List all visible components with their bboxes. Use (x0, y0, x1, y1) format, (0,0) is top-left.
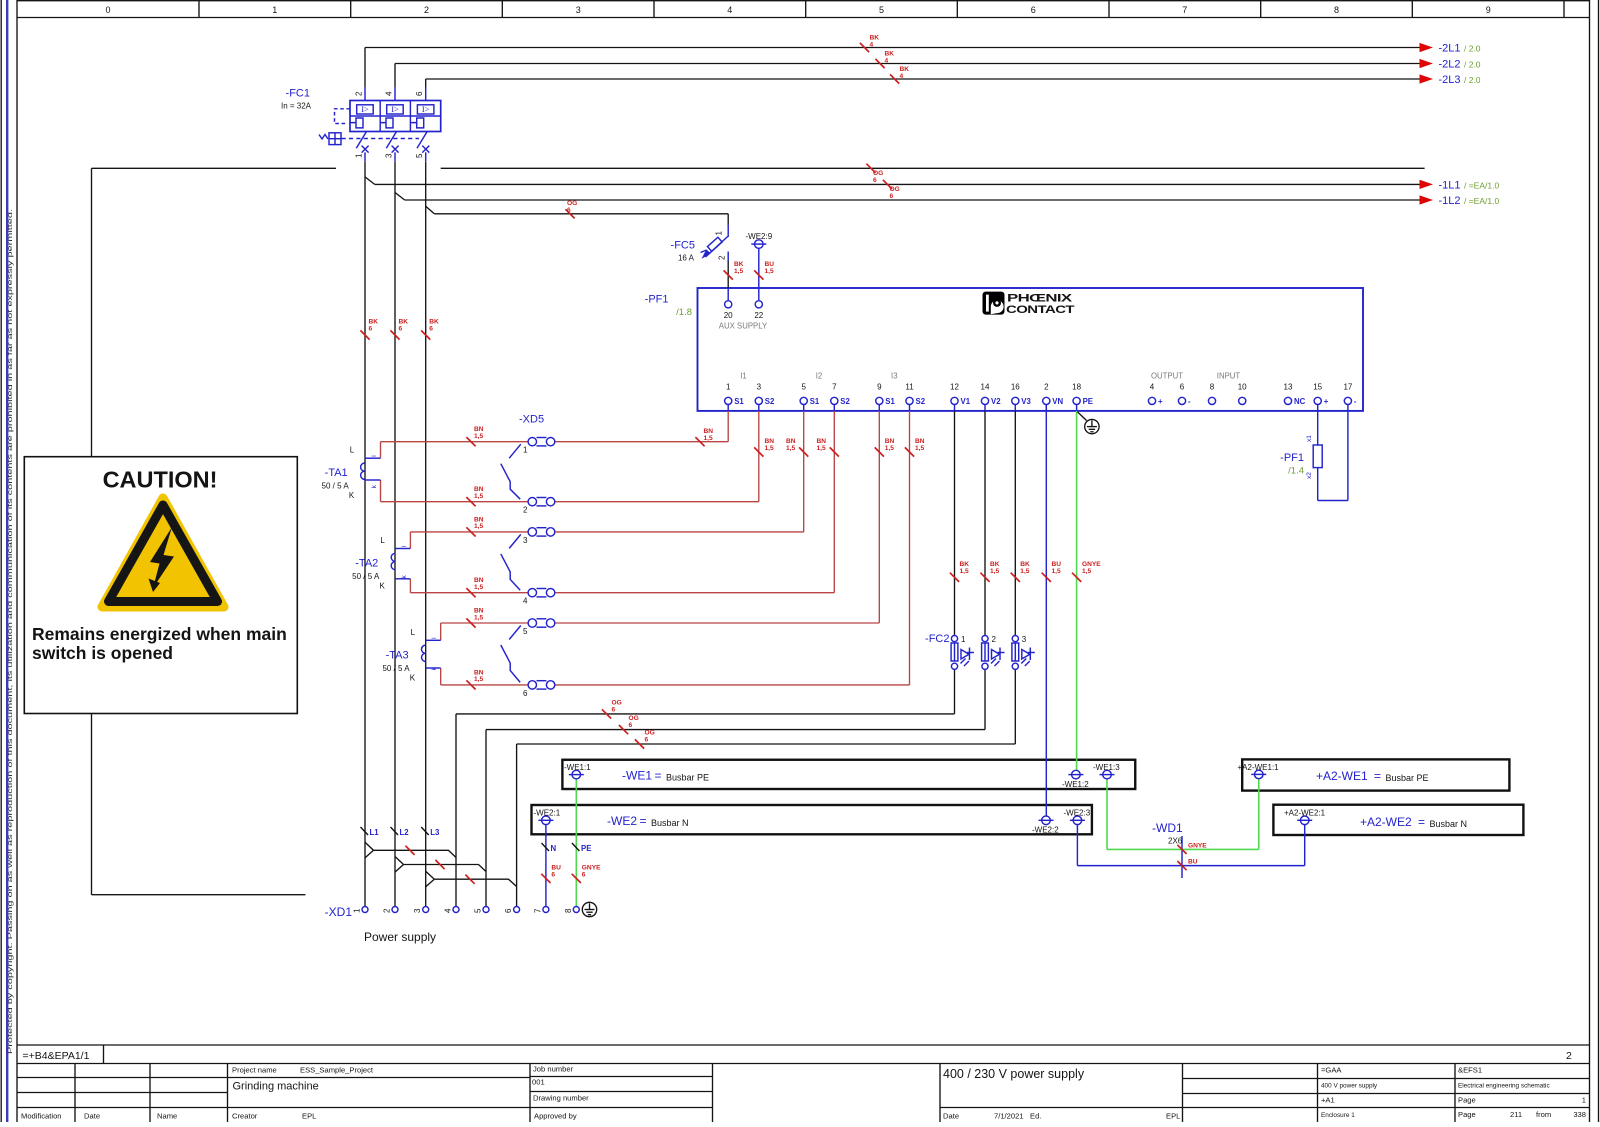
svg-text:+A2-WE1: +A2-WE1 (1316, 769, 1368, 783)
svg-text:1: 1 (272, 5, 277, 15)
svg-text:Drawing number: Drawing number (533, 1094, 589, 1103)
svg-text:L3: L3 (430, 828, 440, 837)
svg-text:1: 1 (726, 382, 731, 391)
svg-text:L: L (411, 628, 416, 637)
svg-text:6: 6 (567, 207, 571, 214)
svg-text:-2L1: -2L1 (1439, 43, 1461, 55)
svg-text:001: 001 (532, 1078, 545, 1087)
svg-text:20: 20 (724, 311, 733, 320)
svg-text:S2: S2 (916, 397, 926, 406)
svg-text:7/1/2021: 7/1/2021 (994, 1112, 1024, 1121)
svg-text:18: 18 (1072, 382, 1081, 391)
svg-text:-XD5: -XD5 (519, 414, 544, 426)
svg-text:8: 8 (1210, 382, 1215, 391)
svg-text:3: 3 (1022, 635, 1027, 644)
svg-text:9: 9 (877, 382, 882, 391)
svg-text:1,5: 1,5 (765, 268, 774, 275)
svg-text:4: 4 (385, 91, 394, 96)
svg-text:12: 12 (950, 382, 959, 391)
svg-text:5: 5 (415, 153, 424, 158)
svg-text:S1: S1 (885, 397, 895, 406)
svg-text:=GAA: =GAA (1321, 1066, 1342, 1075)
svg-text:4: 4 (444, 908, 453, 913)
svg-text:S2: S2 (840, 397, 850, 406)
svg-text:1,5: 1,5 (786, 445, 795, 452)
svg-text:-WE2:3: -WE2:3 (1064, 809, 1091, 818)
svg-text:1,5: 1,5 (1052, 568, 1061, 575)
svg-text:1,5: 1,5 (990, 568, 999, 575)
svg-text:Power supply: Power supply (364, 930, 436, 944)
svg-text:Name: Name (157, 1112, 177, 1121)
svg-text:1,5: 1,5 (474, 493, 483, 500)
svg-text:/ 2.0: / 2.0 (1464, 75, 1481, 85)
svg-text:switch is opened: switch is opened (32, 643, 173, 663)
svg-text:-TA3: -TA3 (386, 649, 409, 661)
svg-text:2: 2 (718, 255, 727, 260)
svg-text:6: 6 (645, 736, 649, 743)
svg-text:Date: Date (84, 1112, 100, 1121)
svg-text:1,5: 1,5 (960, 568, 969, 575)
svg-text:-FC1: -FC1 (286, 88, 310, 100)
svg-text:1: 1 (715, 231, 724, 236)
svg-text:7: 7 (533, 908, 542, 913)
svg-text:EPL: EPL (302, 1112, 316, 1121)
svg-text:-FC2: -FC2 (925, 633, 949, 645)
svg-text:V3: V3 (1021, 397, 1031, 406)
svg-text:-WE2:2: -WE2:2 (1032, 825, 1059, 834)
svg-text:16: 16 (1011, 382, 1020, 391)
svg-text:1,5: 1,5 (817, 445, 826, 452)
svg-text:6: 6 (582, 871, 586, 878)
svg-text:8: 8 (1334, 5, 1339, 15)
svg-text:from: from (1536, 1110, 1551, 1119)
svg-text:8: 8 (564, 908, 573, 913)
svg-text:5: 5 (801, 382, 806, 391)
svg-text:16 A: 16 A (678, 254, 695, 263)
svg-text:Approved by: Approved by (534, 1112, 577, 1121)
svg-text:1: 1 (355, 153, 364, 158)
svg-text:x2: x2 (1306, 472, 1313, 479)
svg-text:2: 2 (1044, 382, 1049, 391)
svg-text:1,5: 1,5 (474, 433, 483, 440)
svg-text:-1L2: -1L2 (1439, 195, 1461, 207)
svg-text:6: 6 (629, 722, 633, 729)
svg-text:+: + (1158, 397, 1163, 406)
svg-text:13: 13 (1284, 382, 1293, 391)
svg-text:2: 2 (355, 91, 364, 96)
svg-text:0: 0 (105, 5, 110, 15)
svg-text:EPL: EPL (1166, 1112, 1180, 1121)
svg-text:4: 4 (885, 57, 889, 64)
svg-text:6: 6 (429, 325, 433, 332)
svg-text:L: L (350, 446, 355, 455)
svg-text:1,5: 1,5 (885, 445, 894, 452)
svg-text:1: 1 (523, 446, 528, 455)
svg-text:-WD1: -WD1 (1152, 821, 1183, 835)
svg-text:Project name: Project name (232, 1066, 277, 1075)
svg-text:Busbar N: Busbar N (1430, 819, 1468, 829)
svg-text:x1: x1 (1306, 435, 1313, 442)
svg-text:I2: I2 (816, 371, 823, 380)
svg-text:3: 3 (757, 382, 762, 391)
svg-text:+A2-WE1:1: +A2-WE1:1 (1238, 763, 1280, 772)
svg-text:INPUT: INPUT (1217, 371, 1241, 380)
svg-text:=: = (640, 814, 647, 828)
svg-text:PHŒNIX: PHŒNIX (1007, 293, 1073, 305)
svg-text:Busbar N: Busbar N (651, 818, 689, 828)
svg-text:/ 2.0: / 2.0 (1464, 44, 1481, 54)
svg-text:2: 2 (523, 506, 528, 515)
svg-text:6: 6 (1031, 5, 1036, 15)
svg-text:-TA1: -TA1 (325, 467, 348, 479)
svg-text:ESS_Sample_Project: ESS_Sample_Project (300, 1066, 374, 1075)
svg-text:=: = (1374, 769, 1381, 783)
svg-text:K: K (349, 491, 355, 500)
svg-text:Busbar PE: Busbar PE (666, 773, 709, 783)
svg-text:211: 211 (1510, 1110, 1522, 1119)
svg-text:Electrical engineering schemat: Electrical engineering schematic (1458, 1083, 1550, 1090)
svg-text:PE: PE (581, 844, 591, 853)
svg-text:2X6: 2X6 (1168, 837, 1183, 846)
svg-text:6: 6 (612, 706, 616, 713)
svg-text:6: 6 (369, 325, 373, 332)
svg-text:Busbar PE: Busbar PE (1386, 773, 1429, 783)
svg-text:=+B4&EPA1/1: =+B4&EPA1/1 (23, 1050, 90, 1062)
svg-text:=: = (655, 769, 662, 783)
svg-text:/ 2.0: / 2.0 (1464, 60, 1481, 70)
svg-text:I>: I> (361, 104, 369, 114)
svg-text:1,5: 1,5 (1020, 568, 1029, 575)
svg-text:I>: I> (391, 104, 399, 114)
svg-text:Enclosure 1: Enclosure 1 (1321, 1112, 1355, 1119)
svg-text:=: = (1418, 815, 1425, 829)
svg-text:-XD1: -XD1 (325, 905, 353, 919)
svg-text:-WE1:3: -WE1:3 (1093, 763, 1120, 772)
svg-text:-WE2:9: -WE2:9 (746, 232, 773, 241)
svg-text:4: 4 (900, 73, 904, 80)
svg-text:In = 32A: In = 32A (281, 102, 312, 111)
svg-text:-WE1: -WE1 (622, 769, 652, 783)
svg-text:Page: Page (1458, 1110, 1476, 1119)
svg-text:+A1: +A1 (1321, 1096, 1335, 1105)
svg-text:Protected by copyright. Passin: Protected by copyright. Passing on as we… (7, 208, 14, 1054)
svg-text:15: 15 (1313, 382, 1322, 391)
svg-text:10: 10 (1238, 382, 1247, 391)
svg-text:Remains energized when main: Remains energized when main (32, 624, 287, 644)
svg-text:4: 4 (1150, 382, 1155, 391)
svg-text:S1: S1 (810, 397, 820, 406)
svg-text:7: 7 (832, 382, 837, 391)
svg-text:6: 6 (504, 908, 513, 913)
svg-text:2: 2 (424, 5, 429, 15)
svg-text:VN: VN (1052, 397, 1063, 406)
svg-text:50 / 5 A: 50 / 5 A (352, 572, 380, 581)
svg-text:22: 22 (754, 311, 763, 320)
svg-text:1,5: 1,5 (474, 523, 483, 530)
svg-text:K: K (410, 673, 416, 682)
svg-text:I3: I3 (891, 371, 898, 380)
svg-text:CONTACT: CONTACT (1006, 304, 1075, 316)
svg-text:-WE2:1: -WE2:1 (534, 809, 561, 818)
svg-text:+: + (1324, 397, 1329, 406)
svg-text:1,5: 1,5 (1082, 568, 1091, 575)
svg-text:/1.4: /1.4 (1288, 466, 1304, 477)
svg-text:6: 6 (551, 871, 555, 878)
svg-text:NC: NC (1294, 397, 1306, 406)
svg-text:6: 6 (399, 325, 403, 332)
svg-text:Ed.: Ed. (1030, 1112, 1041, 1121)
svg-text:1,5: 1,5 (765, 445, 774, 452)
svg-text:3: 3 (523, 536, 528, 545)
svg-text:3: 3 (576, 5, 581, 15)
svg-text:3: 3 (413, 908, 422, 913)
svg-text:-WE1:2: -WE1:2 (1062, 780, 1089, 789)
svg-text:2: 2 (383, 908, 392, 913)
svg-text:2: 2 (992, 635, 997, 644)
svg-text:1,5: 1,5 (915, 445, 924, 452)
svg-text:-WE2: -WE2 (607, 814, 637, 828)
svg-text:AUX SUPPLY: AUX SUPPLY (719, 322, 768, 331)
svg-text:7: 7 (1182, 5, 1187, 15)
svg-text:6: 6 (873, 177, 877, 184)
svg-text:V2: V2 (991, 397, 1001, 406)
svg-text:OUTPUT: OUTPUT (1151, 371, 1183, 380)
svg-text:14: 14 (981, 382, 990, 391)
svg-text:N: N (551, 844, 557, 853)
svg-text:2: 2 (1566, 1050, 1572, 1062)
svg-text:Page: Page (1458, 1096, 1476, 1105)
svg-text:-PF1: -PF1 (1280, 452, 1304, 464)
svg-text:/1.8: /1.8 (676, 307, 692, 318)
svg-text:4: 4 (870, 41, 874, 48)
svg-text:-PF1: -PF1 (645, 294, 669, 306)
svg-text:-FC5: -FC5 (671, 240, 695, 252)
svg-text:5: 5 (879, 5, 884, 15)
svg-text:5: 5 (474, 908, 483, 913)
svg-text:S1: S1 (734, 397, 744, 406)
svg-text:+A2-WE2: +A2-WE2 (1360, 815, 1412, 829)
svg-text:50 / 5 A: 50 / 5 A (322, 482, 350, 491)
svg-text:V1: V1 (961, 397, 971, 406)
svg-text:6: 6 (890, 193, 894, 200)
svg-text:-1L1: -1L1 (1439, 179, 1461, 191)
svg-text:K: K (379, 582, 385, 591)
svg-text:1,5: 1,5 (474, 584, 483, 591)
svg-text:6: 6 (523, 689, 528, 698)
svg-text:PE: PE (1083, 397, 1093, 406)
svg-text:+A2-WE2:1: +A2-WE2:1 (1284, 809, 1326, 818)
svg-text:I>: I> (422, 104, 430, 114)
svg-text:S2: S2 (765, 397, 775, 406)
svg-text:Grinding machine: Grinding machine (233, 1081, 319, 1093)
svg-text:11: 11 (905, 382, 914, 391)
svg-text:-2L3: -2L3 (1439, 74, 1461, 86)
svg-text:1,5: 1,5 (734, 268, 743, 275)
svg-text:1: 1 (353, 908, 362, 913)
svg-text:9: 9 (1486, 5, 1491, 15)
svg-text:17: 17 (1343, 382, 1352, 391)
svg-text:L: L (380, 536, 385, 545)
svg-text:Date: Date (943, 1112, 959, 1121)
svg-text:/ =EA/1.0: / =EA/1.0 (1464, 196, 1499, 206)
svg-text:6: 6 (415, 91, 424, 96)
svg-text:I1: I1 (740, 371, 747, 380)
svg-text:338: 338 (1573, 1110, 1586, 1119)
svg-text:L1: L1 (370, 828, 380, 837)
svg-text:Creator: Creator (232, 1112, 258, 1121)
svg-text:CAUTION!: CAUTION! (103, 467, 218, 493)
svg-text:1: 1 (961, 635, 966, 644)
svg-text:-WE1:1: -WE1:1 (564, 763, 591, 772)
svg-text:Job number: Job number (533, 1065, 574, 1074)
svg-text:-: - (1354, 397, 1357, 406)
svg-text:4: 4 (523, 597, 528, 606)
svg-text:Modification: Modification (21, 1112, 62, 1121)
svg-text:1: 1 (1582, 1096, 1586, 1105)
svg-text:6: 6 (1180, 382, 1185, 391)
svg-text:1,5: 1,5 (474, 614, 483, 621)
svg-text:-TA2: -TA2 (355, 558, 378, 570)
svg-text:3: 3 (385, 153, 394, 158)
svg-text:4: 4 (727, 5, 732, 15)
svg-text:1,5: 1,5 (704, 435, 713, 442)
svg-text:/ =EA/1.0: / =EA/1.0 (1464, 180, 1499, 190)
svg-text:5: 5 (523, 627, 528, 636)
svg-text:1,5: 1,5 (474, 676, 483, 683)
svg-text:-: - (1188, 397, 1191, 406)
svg-text:400 V power supply: 400 V power supply (1321, 1083, 1378, 1090)
svg-text:L2: L2 (400, 828, 410, 837)
svg-text:&EFS1: &EFS1 (1458, 1066, 1482, 1075)
svg-text:-2L2: -2L2 (1439, 59, 1461, 71)
svg-text:50 / 5 A: 50 / 5 A (382, 664, 410, 673)
svg-text:400 / 230 V power supply: 400 / 230 V power supply (943, 1067, 1085, 1081)
svg-text:GNYE: GNYE (1188, 842, 1207, 849)
svg-text:BU: BU (1188, 859, 1198, 866)
